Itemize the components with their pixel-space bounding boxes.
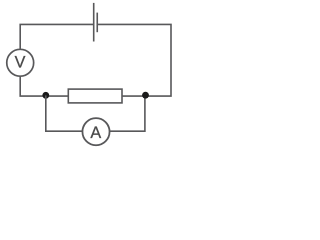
node: junction dot right — [142, 92, 149, 99]
battery B1 short plate — [96, 13, 98, 33]
battery B1 long plate — [93, 3, 95, 42]
wire: voltmeter down, corner, right to resistor — [20, 77, 68, 96]
resistor R1 body — [68, 89, 122, 103]
ammeter A1 circle — [82, 118, 109, 145]
wire: right drop down to ammeter — [109, 95, 145, 131]
voltmeter V1 circle — [7, 49, 34, 76]
node: junction dot left — [42, 92, 49, 99]
wire: battery to top-right corner, down right side to resistor branch — [98, 24, 171, 96]
svg-text:A: A — [90, 124, 101, 142]
wire: top-left corner segment from voltmeter up and right to battery — [20, 24, 93, 48]
svg-text:V: V — [15, 53, 26, 71]
wire: left drop down to ammeter — [46, 95, 83, 131]
